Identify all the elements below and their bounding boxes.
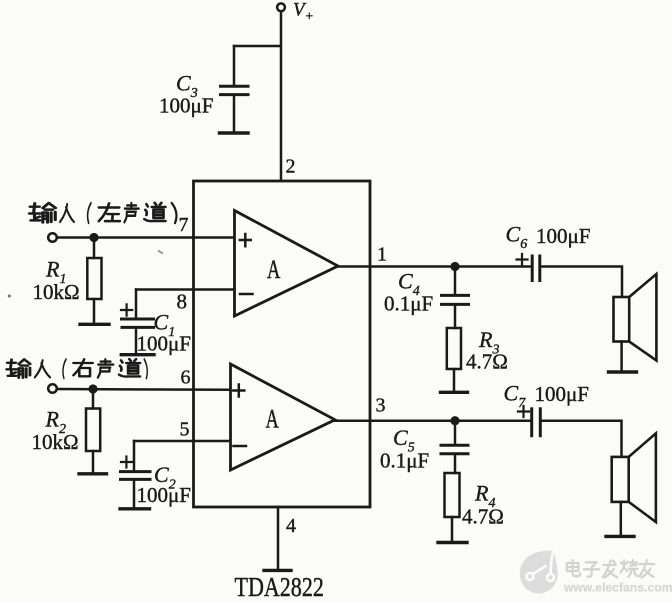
terminal input right channel <box>48 384 57 393</box>
junction node right input <box>88 384 97 393</box>
wire output pin 1 <box>338 265 532 268</box>
capacitor C2 bottom lead <box>133 481 136 509</box>
ground C2 <box>120 507 150 510</box>
resistor R3 bottom lead <box>453 369 456 391</box>
ground C3 <box>220 131 249 134</box>
svg-text:4.7Ω: 4.7Ω <box>466 350 508 374</box>
svg-text:C7: C7 <box>504 381 527 412</box>
wire pin 8 <box>136 288 234 291</box>
capacitor C2 top lead <box>133 441 136 470</box>
capacitor C1 bottom lead <box>135 329 138 354</box>
ground pin 4 <box>264 569 291 572</box>
resistor R2 body <box>86 409 100 452</box>
capacitor C3 top lead <box>233 46 236 85</box>
ground R2 <box>79 472 107 475</box>
svg-text:100μF: 100μF <box>137 483 191 507</box>
wire output pin 3 <box>335 419 532 422</box>
polarity plus C6 <box>517 254 528 265</box>
ground R4 <box>438 541 467 544</box>
resistor R4 body <box>445 473 460 517</box>
watermark logo droplet <box>520 550 558 593</box>
ground LS1 <box>609 370 637 373</box>
wire pin 7 <box>57 236 234 239</box>
junction node left input <box>89 233 98 242</box>
wire pin 5 <box>134 440 230 443</box>
label input left channel (Chinese) <box>29 203 176 223</box>
ground LS2 <box>606 535 634 538</box>
capacitor C6 plates <box>532 256 540 281</box>
wire C6 to speaker LS1 <box>541 267 623 297</box>
capacitor C5 top lead <box>454 421 457 444</box>
speaker LS2 bottom lead <box>620 502 623 536</box>
svg-text:1: 1 <box>377 244 387 266</box>
svg-text:100μF: 100μF <box>535 382 589 406</box>
scan speck 1 <box>8 295 11 298</box>
speaker LS1 driver <box>614 297 630 342</box>
speaker LS2 driver <box>612 457 629 502</box>
op-amp A1 minus input mark <box>240 293 253 296</box>
resistor R3 body <box>447 328 461 369</box>
svg-text:10kΩ: 10kΩ <box>32 430 79 454</box>
junction node 3 <box>450 416 459 425</box>
capacitor C2 plates <box>121 472 151 480</box>
svg-text:2: 2 <box>286 156 296 178</box>
speaker LS1 horn <box>629 274 656 361</box>
terminal V+ <box>277 3 285 11</box>
svg-text:V+: V+ <box>293 0 314 24</box>
capacitor C7 plates <box>532 409 541 436</box>
label input right channel (Chinese) <box>7 359 148 378</box>
capacitor C5 bottom lead <box>454 455 457 473</box>
svg-text:www.elecfans.com: www.elecfans.com <box>563 581 672 595</box>
resistor R4 bottom lead <box>451 517 454 542</box>
svg-text:A: A <box>267 255 281 284</box>
capacitor C4 plates <box>442 295 469 304</box>
svg-text:6: 6 <box>181 367 191 389</box>
svg-text:100μF: 100μF <box>536 224 590 248</box>
svg-text:0.1μF: 0.1μF <box>380 449 429 473</box>
svg-text:100μF: 100μF <box>159 94 213 118</box>
resistor R2 top lead <box>92 389 95 409</box>
polarity plus C2 <box>121 457 132 468</box>
speaker LS2 horn <box>629 433 656 522</box>
svg-text:3: 3 <box>376 395 386 417</box>
svg-text:100μF: 100μF <box>137 332 191 356</box>
svg-text:4: 4 <box>286 515 296 537</box>
capacitor C1 top lead <box>135 290 138 318</box>
svg-text:5: 5 <box>180 419 190 441</box>
resistor R2 bottom lead <box>92 451 95 473</box>
polarity plus C1 <box>121 304 132 315</box>
junction node 1 <box>450 262 459 271</box>
ground C1 <box>121 353 154 356</box>
op-amp A1 triangle <box>235 211 339 317</box>
capacitor C4 bottom lead <box>454 306 457 328</box>
op-amp A2 plus input mark <box>233 385 244 397</box>
polarity plus C7 <box>518 406 529 417</box>
svg-text:4.7Ω: 4.7Ω <box>462 505 504 529</box>
watermark logo traces <box>527 551 555 581</box>
WATERMARK <box>520 550 672 594</box>
capacitor C1 plates <box>122 319 154 327</box>
svg-text:8: 8 <box>177 290 188 314</box>
resistor R1 bottom lead <box>93 299 96 323</box>
capacitor C3 bottom lead <box>233 96 236 132</box>
svg-text:10kΩ: 10kΩ <box>33 280 80 304</box>
ground R3 <box>441 391 468 394</box>
op-amp A2 triangle <box>231 364 336 470</box>
wire pin 6 <box>57 388 230 391</box>
svg-text:0.1μF: 0.1μF <box>384 291 433 315</box>
resistor R1 top lead <box>93 238 96 258</box>
capacitor C3 plates <box>221 86 249 94</box>
scan speck 2 <box>158 251 163 254</box>
svg-text:TDA2822: TDA2822 <box>235 573 324 602</box>
terminal input left channel <box>48 233 57 242</box>
svg-text:C6: C6 <box>506 222 528 253</box>
capacitor C5 plates <box>441 445 468 453</box>
svg-text:A: A <box>266 404 280 433</box>
wire V+ rail to pin 2 <box>280 11 283 180</box>
watermark text elecfans chinese <box>567 560 654 578</box>
op-amp A2 minus input mark <box>234 445 247 448</box>
op-amp A1 plus input mark <box>240 234 251 246</box>
wire C3 branch <box>234 45 280 48</box>
capacitor C4 top lead <box>454 267 457 295</box>
IC U1 TDA2822 package box <box>194 181 371 507</box>
resistor R1 body <box>87 258 101 299</box>
ground R1 <box>80 323 109 326</box>
svg-text:7: 7 <box>179 214 189 236</box>
speaker LS1 bottom lead <box>620 342 623 372</box>
wire C7 to speaker LS2 <box>541 421 622 456</box>
wire pin 4 <box>277 507 280 569</box>
